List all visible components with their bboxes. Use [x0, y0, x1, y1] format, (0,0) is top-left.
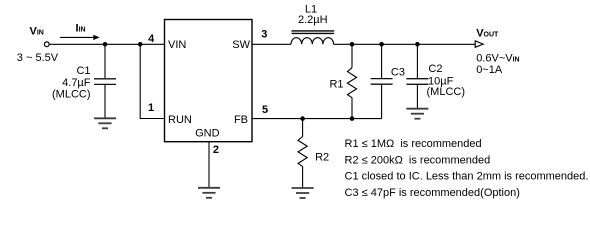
svg-text:C1 closed to IC. Less than 2mm: C1 closed to IC. Less than 2mm is recomm… — [345, 171, 589, 183]
svg-text:R2: R2 — [315, 151, 329, 163]
svg-text:C1: C1 — [76, 65, 90, 77]
svg-text:R1 ≤ 1MΩ is recommended: R1 ≤ 1MΩ is recommended — [345, 138, 482, 150]
svg-text:0~1A: 0~1A — [476, 64, 503, 76]
svg-text:IIN: IIN — [76, 23, 86, 35]
svg-text:(MLCC): (MLCC) — [427, 86, 466, 98]
svg-text:GND: GND — [195, 128, 220, 140]
svg-text:5: 5 — [262, 104, 268, 116]
svg-text:4.7µF: 4.7µF — [62, 77, 91, 89]
svg-text:C3 ≤ 47pF is recommended(Optio: C3 ≤ 47pF is recommended(Option) — [345, 187, 520, 199]
svg-text:2: 2 — [213, 144, 219, 156]
svg-text:VOUT: VOUT — [476, 28, 499, 40]
svg-text:0.6V~VIN: 0.6V~VIN — [476, 53, 519, 65]
svg-text:VIN: VIN — [168, 39, 186, 51]
svg-text:R1: R1 — [329, 78, 343, 90]
svg-text:1: 1 — [148, 102, 154, 114]
svg-text:C3: C3 — [391, 66, 405, 78]
svg-text:(MLCC): (MLCC) — [52, 89, 91, 101]
svg-text:3 ~ 5.5V: 3 ~ 5.5V — [17, 52, 59, 64]
svg-text:FB: FB — [234, 114, 248, 126]
svg-text:SW: SW — [232, 39, 250, 51]
svg-text:4: 4 — [148, 33, 155, 45]
svg-text:R2 ≤ 200kΩ is recommended: R2 ≤ 200kΩ is recommended — [345, 155, 491, 167]
svg-text:RUN: RUN — [168, 114, 192, 126]
svg-text:VIN: VIN — [30, 26, 44, 38]
svg-text:C2: C2 — [428, 63, 442, 75]
svg-text:2.2µH: 2.2µH — [298, 14, 328, 26]
svg-text:3: 3 — [261, 29, 267, 41]
